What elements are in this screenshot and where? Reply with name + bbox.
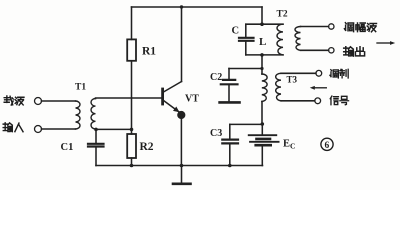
node bias junction at R1/R2 bbox=[130, 128, 134, 132]
ground symbol stub bbox=[181, 166, 183, 184]
wire C3 branch horizontal bbox=[230, 123, 262, 125]
capacitor C1 plates bbox=[88, 144, 104, 147]
wire rail corner down to tank bbox=[261, 7, 263, 24]
node battery top junction bbox=[261, 122, 265, 126]
node C3-ground rail bbox=[228, 164, 232, 168]
node C2 branch junction bbox=[260, 67, 263, 70]
capacitor C1 top lead bbox=[95, 129, 97, 143]
wire C2 branch horizontal bbox=[229, 68, 262, 70]
transistor VT emitter diagonal with arrow bbox=[164, 101, 179, 112]
battery EC long plate 2 bbox=[250, 141, 279, 143]
node emitter-ground rail bbox=[180, 164, 184, 168]
capacitor C3 plates bbox=[222, 140, 238, 144]
capacitor C2 plates bbox=[221, 80, 238, 84]
text hanzi tiaozhi (modulation) bbox=[330, 69, 348, 78]
transformer T3 primary winding bbox=[262, 74, 267, 102]
transformer T1 primary winding bbox=[76, 101, 81, 129]
text hanzi shuchu (output) bbox=[344, 47, 365, 56]
capacitor C1 bottom lead bbox=[95, 147, 97, 165]
wire T3 secondary bottom to signal terminal bbox=[281, 100, 315, 102]
svg-text:VT: VT bbox=[185, 93, 199, 104]
svg-text:R1: R1 bbox=[142, 46, 156, 58]
terminal carrier input bottom bbox=[35, 126, 42, 133]
svg-text:T3: T3 bbox=[287, 74, 298, 84]
wire main column tank to T3 bbox=[261, 55, 263, 74]
ground bar under C2 bbox=[220, 101, 240, 104]
svg-text:E: E bbox=[283, 138, 290, 149]
resistor R1 bbox=[127, 39, 136, 60]
svg-text:C2: C2 bbox=[210, 72, 222, 83]
wire R2 top lead bbox=[131, 129, 133, 134]
capacitor C plates bbox=[239, 38, 254, 41]
node emitter dot bbox=[177, 111, 185, 119]
wire emitter vertical to ground rail bbox=[180, 115, 182, 166]
svg-text:6: 6 bbox=[325, 141, 330, 151]
capacitor C top lead bbox=[245, 24, 247, 37]
wire R1 bottom lead to bias node bbox=[131, 61, 133, 130]
svg-text:C: C bbox=[232, 26, 240, 37]
svg-text:C3: C3 bbox=[210, 128, 222, 139]
terminal output bottom bbox=[329, 48, 334, 53]
transistor VT base bar bbox=[161, 89, 164, 104]
transformer T2 secondary winding bbox=[295, 27, 301, 51]
battery EC short plate 2 bbox=[256, 144, 271, 147]
capacitor C2 top lead bbox=[228, 69, 230, 80]
wire top supply rail bbox=[132, 6, 263, 8]
wire T3 primary bottom to battery node bbox=[261, 102, 263, 125]
wire T2 secondary bottom to output terminal bbox=[301, 49, 329, 51]
wire top terminal to T1 primary bbox=[42, 100, 76, 102]
svg-text:C: C bbox=[290, 141, 295, 150]
wire R1 top lead from rail bbox=[131, 7, 133, 39]
node T1 secondary bottom junction bbox=[94, 128, 98, 132]
wire bottom ground rail bbox=[96, 165, 263, 167]
transformer T3 secondary winding bbox=[276, 73, 281, 101]
wire bias node to T1 secondary bottom bbox=[96, 128, 132, 130]
wire tank top bbox=[246, 23, 283, 25]
ground symbol bar bbox=[173, 183, 191, 186]
text hanzi shuru (input) bbox=[3, 123, 23, 132]
transistor VT collector diagonal bbox=[164, 82, 182, 93]
transformer T1 secondary winding bbox=[91, 99, 96, 129]
battery EC bottom lead bbox=[261, 146, 263, 165]
terminal modulation top bbox=[316, 70, 322, 76]
text hanzi zaibo (carrier) bbox=[4, 96, 24, 105]
node tank top junction bbox=[260, 22, 264, 26]
node R2-ground rail bbox=[130, 164, 134, 168]
capacitor C2 bottom lead bbox=[228, 85, 230, 101]
terminal AM-wave output top bbox=[329, 24, 334, 29]
text hanzi xinhao (signal) bbox=[330, 96, 348, 105]
wire R2 bottom lead bbox=[131, 158, 133, 166]
node junction collector-rail bbox=[180, 5, 183, 8]
terminal carrier input top bbox=[35, 98, 42, 105]
wire bottom terminal to T1 primary bbox=[42, 128, 76, 130]
wire T1 secondary top to base bbox=[96, 97, 162, 100]
battery EC short plate 1 bbox=[257, 138, 271, 141]
capacitor C bottom lead bbox=[245, 42, 247, 55]
svg-text:C1: C1 bbox=[61, 142, 74, 153]
capacitor C3 bottom lead bbox=[229, 144, 231, 166]
resistor R2 bbox=[127, 134, 136, 158]
wire collector vertical bbox=[181, 7, 183, 82]
wire tank bottom bbox=[246, 54, 283, 56]
wire T2 secondary top to output terminal bbox=[301, 26, 329, 28]
svg-text:R2: R2 bbox=[140, 141, 154, 153]
node tank bottom junction bbox=[260, 53, 264, 57]
capacitor C3 top lead bbox=[229, 124, 231, 139]
svg-text:T1: T1 bbox=[75, 83, 86, 93]
arrow left (modulation input direction) bbox=[314, 87, 327, 89]
label circled 6 figure number bbox=[321, 138, 333, 150]
svg-text:L: L bbox=[259, 36, 266, 48]
text hanzi tiaofubo (AM wave) bbox=[344, 23, 376, 32]
battery EC top lead bbox=[261, 124, 263, 134]
wire T3 secondary top to modulation terminal bbox=[281, 72, 316, 74]
wire T1 secondary bottom stub bbox=[95, 128, 97, 131]
terminal signal bottom bbox=[315, 98, 321, 104]
svg-text:T2: T2 bbox=[277, 10, 288, 20]
arrow right (output direction) bbox=[377, 42, 391, 44]
transformer T2 primary winding (tank inductor L) bbox=[277, 24, 283, 55]
battery EC long plate 1 bbox=[249, 134, 277, 136]
